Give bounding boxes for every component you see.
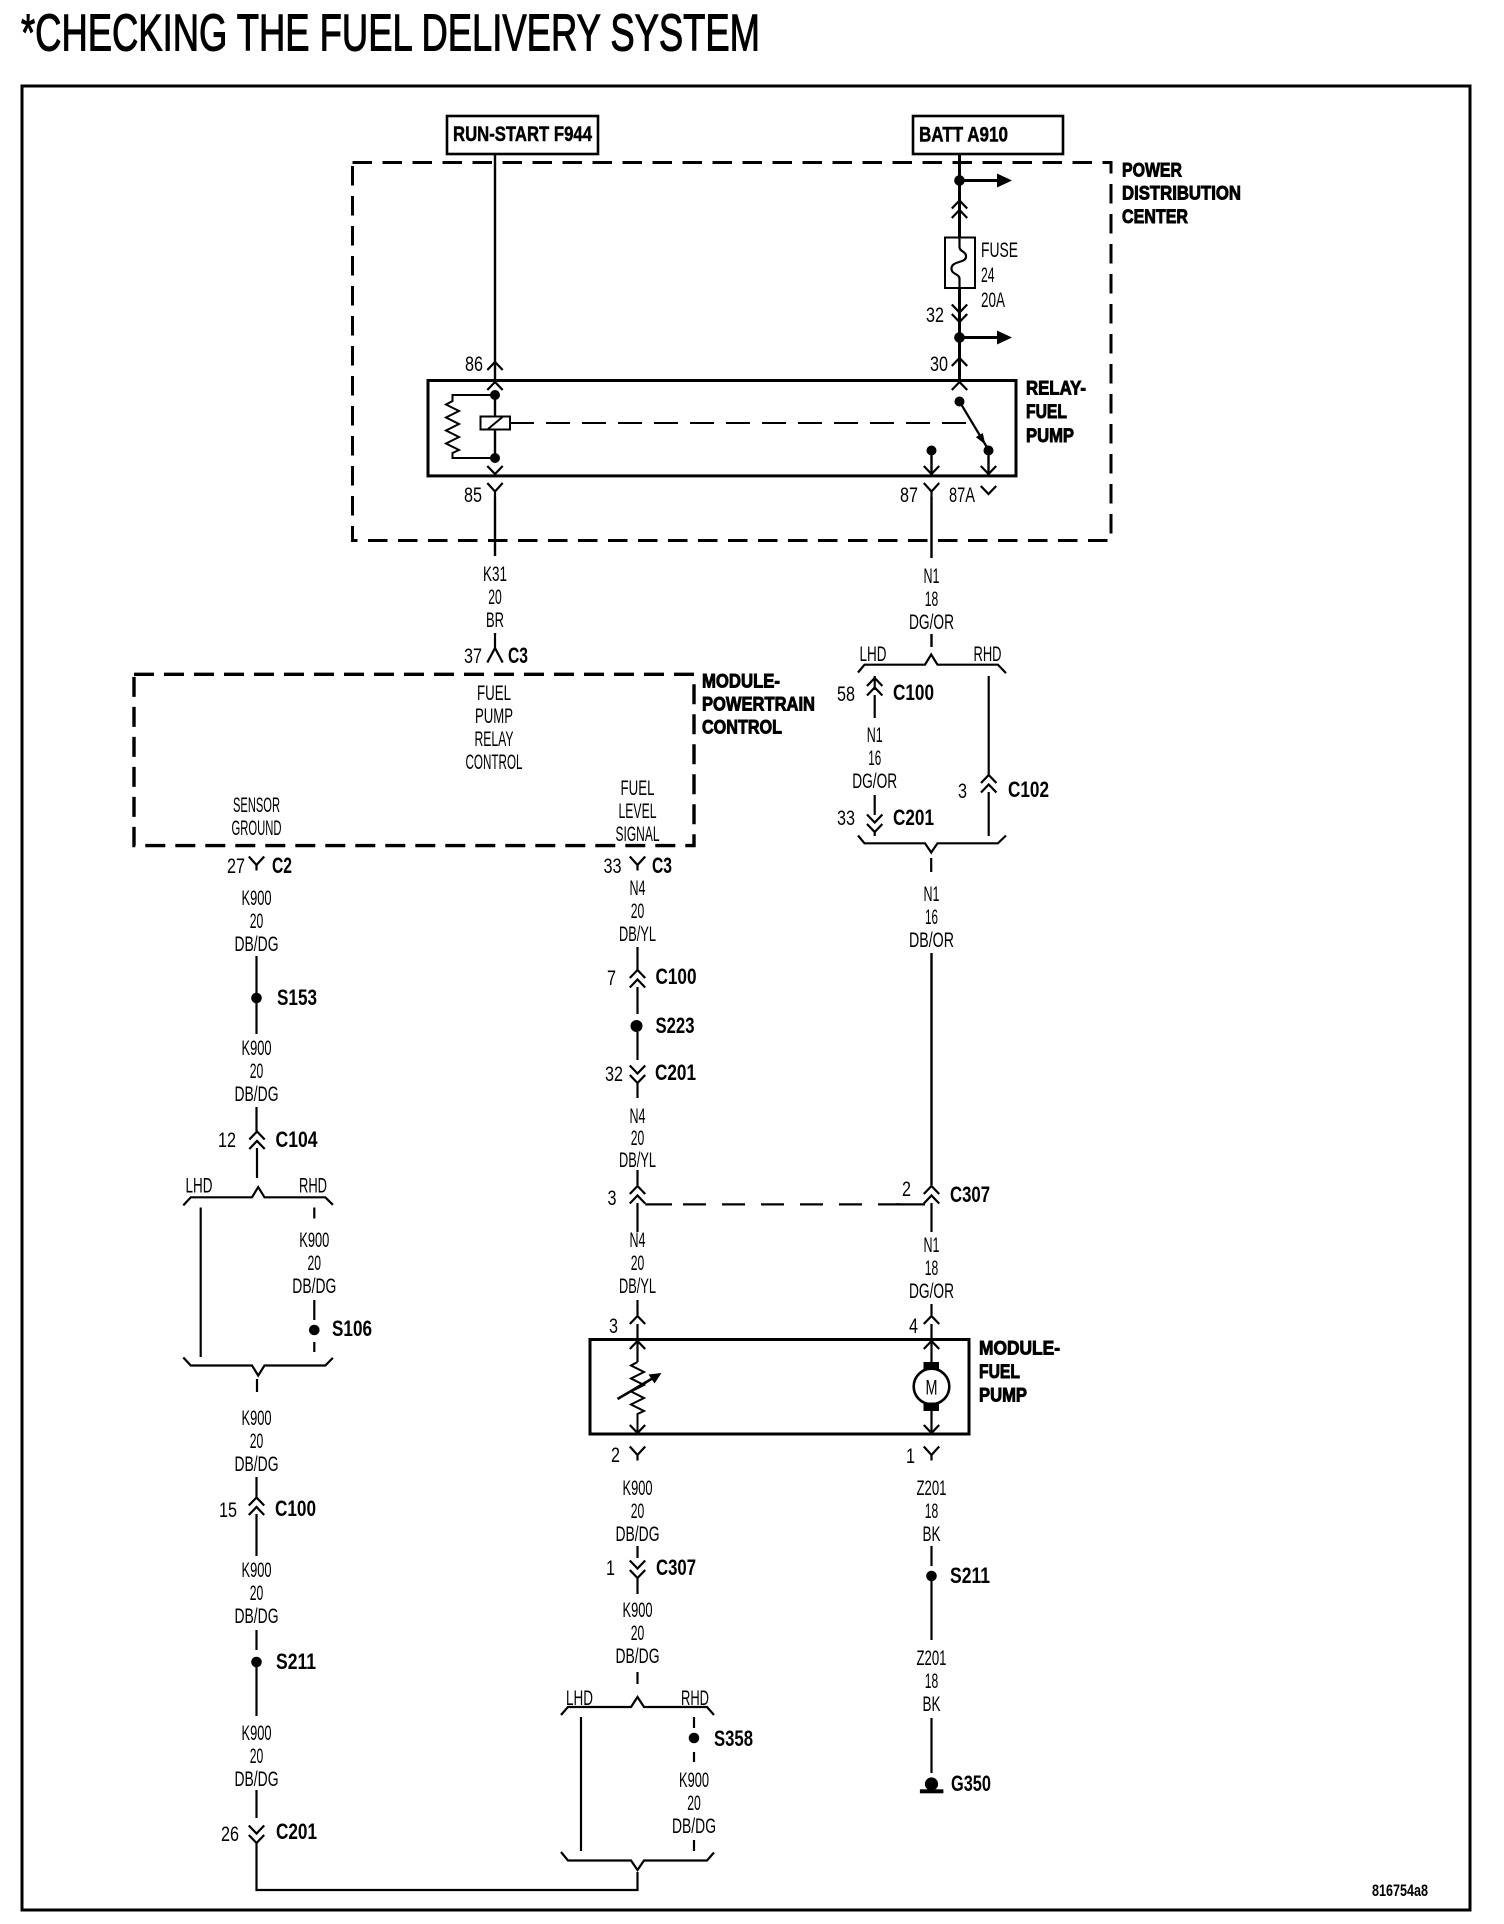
svg-text:18: 18 [925,587,939,611]
LHD branch wire [580,1717,582,1851]
svg-text:S223: S223 [656,1013,695,1038]
wire to C104 [255,1107,257,1131]
svg-text:K900: K900 [242,1721,272,1745]
relay contact 87A dot [984,446,994,456]
relay coil symbol [481,417,511,430]
svg-text:K900: K900 [242,1406,272,1430]
connector C307 double chevron [924,1186,939,1204]
wire 87 dot to box edge [930,451,932,476]
svg-text:20: 20 [250,1744,264,1768]
wire into pump module [930,1304,932,1315]
module powertrain control box [134,674,694,845]
svg-text:32: 32 [605,1062,623,1086]
svg-text:87: 87 [900,483,918,507]
svg-text:20: 20 [250,1581,264,1605]
svg-text:20: 20 [250,1429,264,1453]
svg-text:DB/DG: DB/DG [235,1604,279,1628]
stub to split [636,1672,638,1684]
variable resistor arrow [618,1378,655,1400]
arrow to other circuits (top) [960,179,999,182]
label FUEL LEVEL SIGNAL [616,776,660,846]
wire down and right to merge [257,1843,638,1890]
svg-text:MODULE-: MODULE- [702,670,780,692]
svg-text:S211: S211 [276,1649,316,1674]
svg-text:16: 16 [868,746,881,770]
pump motor bottom terminal [924,1425,939,1433]
connector C3 fork [630,857,645,871]
svg-text:RELAY: RELAY [475,727,514,751]
svg-text:18: 18 [925,1669,939,1693]
relay fuel pump box [428,381,1016,476]
svg-text:BATT A910: BATT A910 [919,122,1008,146]
svg-text:33: 33 [604,854,622,878]
splice S153 [251,993,262,1004]
svg-text:DB/DG: DB/DG [235,1082,279,1106]
svg-text:N1: N1 [867,723,883,747]
svg-text:N1: N1 [924,564,940,588]
svg-text:DB/DG: DB/DG [672,1814,716,1838]
svg-text:G350: G350 [951,1771,991,1796]
pump pin 2 female terminal [630,1447,645,1461]
svg-text:20: 20 [631,1499,645,1523]
splice S211 [926,1571,937,1582]
LHD/RHD merge brace [183,1358,333,1376]
splice S358 [689,1733,700,1744]
dashed tie line to C307 [645,1203,672,1205]
LHD branch wire [200,1208,202,1358]
svg-text:2: 2 [611,1443,620,1467]
svg-text:N1: N1 [924,882,940,906]
relay suppression resistor [446,395,495,458]
svg-text:FUEL: FUEL [979,1361,1020,1383]
label MODULE-FUEL PUMP [979,1337,1060,1406]
stub to merge [693,1840,695,1851]
svg-text:N4: N4 [630,1104,646,1128]
ground G350 [920,1777,944,1793]
wire stub to split [930,634,932,647]
svg-text:20: 20 [687,1791,701,1815]
svg-text:PUMP: PUMP [475,704,513,728]
LHD/RHD split brace [858,655,1006,674]
svg-text:C102: C102 [1008,777,1049,802]
inline connector double chevron below fuse [952,305,967,323]
svg-text:M: M [926,1376,938,1400]
connector C100 double chevron [867,678,882,696]
LHD/RHD merge brace [561,1852,714,1870]
wire to S211 [930,1546,932,1566]
motor brush bottom [924,1403,940,1412]
svg-text:Z201: Z201 [917,1476,947,1500]
svg-text:DG/OR: DG/OR [909,1279,954,1303]
svg-text:C201: C201 [655,1060,696,1085]
svg-text:C104: C104 [276,1127,319,1152]
svg-text:20: 20 [250,1059,264,1083]
relay switch arm [960,402,989,450]
label POWER DISTRIBUTION CENTER [1122,159,1241,228]
stub to merge [874,832,876,836]
fuel level sender bottom terminal [630,1425,645,1433]
splice S223 [631,1020,643,1032]
LHD/RHD split brace [561,1697,714,1715]
LHD/RHD merge brace [858,836,1006,853]
wire LHD branch stub [874,676,876,690]
wire BATT A910 down [958,154,961,380]
wire above pin 3 [636,1170,638,1185]
svg-text:26: 26 [221,1822,239,1846]
pump motor internal terminal [924,1341,939,1349]
svg-text:DB/DG: DB/DG [235,932,279,956]
svg-text:S358: S358 [714,1726,753,1751]
stub below merge [256,1379,258,1392]
svg-text:DG/OR: DG/OR [909,610,954,634]
fuse-output node RUN-START F944 [447,116,598,154]
svg-text:12: 12 [218,1128,236,1152]
svg-text:CONTROL: CONTROL [466,750,523,774]
stub to S211 [255,1630,257,1650]
svg-text:16: 16 [925,905,938,929]
svg-text:86: 86 [465,352,483,376]
motor brush top [924,1362,940,1371]
svg-text:58: 58 [837,682,855,706]
pump pin 4 male terminal [924,1316,939,1324]
stub below S106 [313,1342,315,1352]
svg-text:DB/OR: DB/OR [909,928,954,952]
svg-text:2: 2 [902,1177,911,1201]
svg-text:LEVEL: LEVEL [619,799,657,823]
svg-text:FUEL: FUEL [621,776,655,800]
fuel level sender internal terminal [630,1341,645,1349]
svg-text:DISTRIBUTION: DISTRIBUTION [1122,182,1241,204]
wire below S211 [255,1667,257,1716]
wire RHD branch [988,676,990,775]
relay pin 85 internal terminal [487,466,502,474]
svg-text:20: 20 [308,1251,322,1275]
LHD/RHD split brace [183,1187,333,1205]
svg-text:PUMP: PUMP [1026,425,1074,447]
motor M circle [914,1369,950,1405]
label FUEL PUMP RELAY CONTROL [466,681,523,774]
splice S106 [309,1325,320,1336]
fuel level sender variable resistor [631,1362,644,1433]
wire RUN-START F944 to relay pin 86 [494,154,496,380]
relay pin 30 internal terminal [952,382,967,390]
junction dot below fuse [954,332,965,343]
svg-text:FUSE: FUSE [981,238,1018,262]
module fuel pump box [590,1340,969,1435]
svg-text:32: 32 [926,303,944,327]
label RELAY-FUEL PUMP [1026,377,1086,447]
stub to S106 [313,1300,315,1320]
relay coil to contact dashed link [510,422,968,424]
svg-text:K900: K900 [679,1768,709,1792]
svg-text:K900: K900 [299,1228,329,1252]
svg-text:85: 85 [464,483,482,507]
svg-text:20A: 20A [981,288,1005,312]
svg-text:K900: K900 [623,1476,653,1500]
svg-text:87A: 87A [949,483,975,507]
wire to C100 [636,947,638,970]
svg-text:816754a8: 816754a8 [1372,1882,1428,1900]
relay pin 87 internal terminal [924,466,939,474]
svg-text:CONTROL: CONTROL [702,716,782,738]
label SENSOR GROUND [232,793,282,840]
wire BR to fork [494,633,496,634]
pump pin 1 female terminal [924,1447,939,1461]
splice S211 [251,1657,262,1668]
svg-text:DB/DG: DB/DG [616,1644,660,1668]
svg-text:MODULE-: MODULE- [979,1337,1060,1359]
svg-text:C307: C307 [950,1182,990,1207]
wire into pump module [636,1300,638,1315]
svg-text:1: 1 [606,1556,615,1580]
svg-text:20: 20 [631,1251,645,1275]
svg-text:N4: N4 [630,1228,646,1252]
svg-text:BK: BK [923,1692,941,1716]
svg-text:C100: C100 [275,1496,316,1521]
pin 30 male terminal [952,358,967,366]
svg-text:RHD: RHD [299,1174,327,1198]
power node BATT A910 [913,116,1063,154]
wire to S153 [255,956,257,993]
relay pin 86 internal terminal [487,382,502,390]
relay coil top junction dot [490,390,500,400]
svg-text:POWER: POWER [1122,159,1182,181]
connector C3 fork [487,634,502,663]
svg-text:K900: K900 [242,1558,272,1582]
wire 87A dot to box edge [987,451,989,476]
svg-text:K31: K31 [483,562,507,586]
fuse 24 20A [945,238,1018,312]
svg-text:1: 1 [906,1444,915,1468]
svg-text:20: 20 [250,909,264,933]
svg-text:FUEL: FUEL [477,681,511,705]
svg-text:K900: K900 [623,1598,653,1622]
svg-text:RELAY-: RELAY- [1026,377,1086,399]
wire below S211 [930,1581,932,1640]
wire to C100 [255,1477,257,1497]
svg-text:C3: C3 [508,643,528,668]
svg-text:3: 3 [958,779,967,803]
svg-text:N1: N1 [924,1233,940,1257]
svg-text:PUMP: PUMP [979,1384,1027,1406]
svg-text:20: 20 [631,899,645,923]
svg-text:27: 27 [227,854,245,878]
svg-text:33: 33 [837,806,855,830]
relay coil wire [494,395,496,458]
svg-text:SIGNAL: SIGNAL [616,822,660,846]
connector C201 double chevron [249,1826,264,1844]
svg-text:GROUND: GROUND [232,816,282,840]
svg-text:DB/DG: DB/DG [292,1274,336,1298]
svg-text:C307: C307 [656,1555,696,1580]
svg-text:N4: N4 [630,876,646,900]
svg-text:FUEL: FUEL [1026,401,1067,423]
svg-text:DB/DG: DB/DG [235,1767,279,1791]
wire below S153 [255,1003,257,1034]
svg-text:*CHECKING THE FUEL DELIVERY SY: *CHECKING THE FUEL DELIVERY SYSTEM [21,4,760,62]
svg-text:20: 20 [631,1126,645,1150]
svg-text:C2: C2 [272,853,292,878]
pump pin 3 male terminal [630,1316,645,1324]
svg-text:DB/YL: DB/YL [619,1148,656,1172]
svg-text:15: 15 [219,1498,237,1522]
connector C104 double chevron [249,1132,264,1150]
label MODULE-POWERTRAIN CONTROL [702,670,815,738]
svg-text:BR: BR [486,608,504,632]
svg-text:24: 24 [981,263,995,287]
wire to C201 [255,1790,257,1818]
svg-text:DB/DG: DB/DG [616,1522,660,1546]
svg-text:RHD: RHD [974,642,1002,666]
svg-text:C201: C201 [276,1819,317,1844]
svg-text:POWERTRAIN: POWERTRAIN [702,693,815,715]
relay contact 87 dot [927,446,937,456]
svg-text:18: 18 [925,1256,939,1280]
connector C2 fork [249,857,264,871]
connector C100 double chevron [630,970,645,988]
svg-text:LHD: LHD [860,642,887,666]
svg-text:37: 37 [464,644,482,668]
svg-text:DB/YL: DB/YL [619,922,656,946]
svg-text:SENSOR: SENSOR [233,793,280,817]
svg-text:C3: C3 [652,853,672,878]
relay common junction dot [955,397,965,407]
svg-text:3: 3 [609,1314,618,1338]
svg-text:C201: C201 [893,805,934,830]
relay pin 87A internal terminal [981,466,996,474]
svg-text:7: 7 [607,966,616,990]
connector C201 double chevron [867,815,882,833]
svg-text:BK: BK [923,1522,941,1546]
arrow to other circuits (mid) [960,336,999,339]
junction dot at BATT feed [954,175,965,186]
svg-text:S106: S106 [332,1316,372,1341]
svg-text:C100: C100 [893,680,934,705]
svg-text:C100: C100 [656,964,697,989]
RHD branch stub [313,1208,315,1219]
pin 87A open contact chevron [981,486,996,494]
stub below S358 [693,1752,695,1762]
svg-text:30: 30 [930,352,948,376]
inline connector double chevron above fuse [952,201,967,219]
relay coil bottom junction dot [490,453,500,463]
connector chevron at dashed tie [630,1186,645,1204]
power distribution center box [353,163,1112,541]
svg-text:K900: K900 [242,1036,272,1060]
wire below S223 [636,1032,638,1060]
wire to C201 [874,795,876,815]
wire to C307 [636,1546,638,1558]
wire below C102 [988,792,990,836]
pin 85 female terminal [487,483,502,497]
long wire down to C307 [930,953,932,1185]
svg-text:CENTER: CENTER [1122,206,1188,228]
svg-text:4: 4 [909,1314,918,1338]
motor to box edge wire [930,1408,932,1433]
svg-text:Z201: Z201 [917,1646,947,1670]
connector C307 double chevron down [630,1561,645,1579]
wire relay 85 to PCM C3 [494,497,496,556]
connector C100 double chevron [249,1498,264,1516]
svg-text:DG/OR: DG/OR [852,769,897,793]
svg-text:DB/DG: DB/DG [235,1452,279,1476]
connector C201 double chevron [630,1066,645,1084]
svg-text:DB/YL: DB/YL [619,1274,656,1298]
svg-text:18: 18 [925,1499,939,1523]
svg-text:20: 20 [631,1621,645,1645]
connector C102 double chevron [981,775,996,793]
svg-text:LHD: LHD [186,1174,213,1198]
wire to ground [930,1718,932,1773]
svg-text:K900: K900 [242,886,272,910]
svg-text:3: 3 [608,1186,617,1210]
pin 86 male terminal [487,362,502,370]
pin 87 female terminal [924,483,939,497]
wire relay 87 down [930,497,932,558]
stub below merge [930,858,932,872]
svg-text:20: 20 [488,585,502,609]
RHD branch stub [693,1717,695,1728]
svg-text:S153: S153 [277,985,317,1010]
svg-text:S211: S211 [950,1563,990,1588]
svg-text:RUN-START F944: RUN-START F944 [453,122,592,146]
